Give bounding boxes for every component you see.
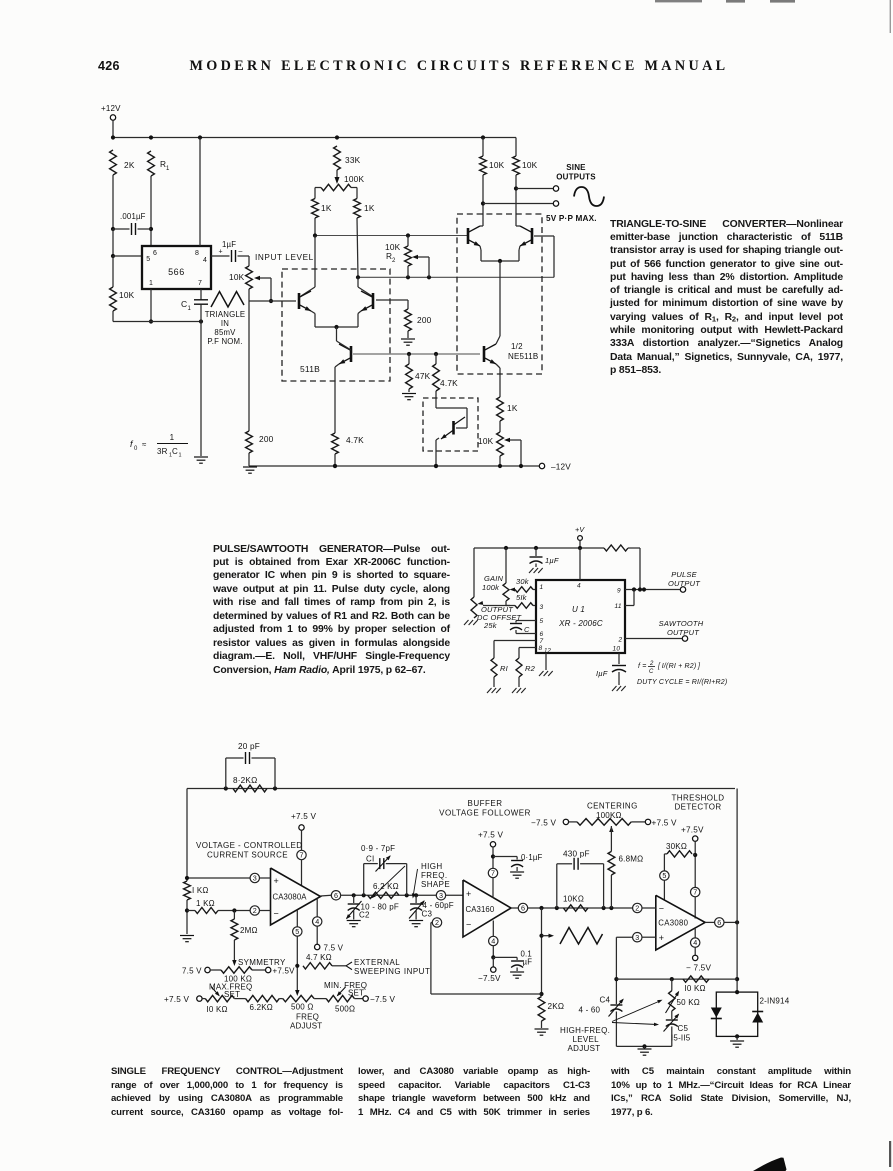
svg-text:5Ik: 5Ik (516, 593, 528, 602)
wire sine output 1 (516, 188, 553, 190)
svg-text:2: 2 (435, 918, 439, 927)
resistor 1K (497, 397, 504, 421)
svg-text:DETECTOR: DETECTOR (674, 803, 721, 812)
svg-text:6: 6 (717, 918, 721, 927)
capacitor C1 trimmer loop (363, 864, 365, 896)
svg-text:6: 6 (540, 631, 544, 638)
capacitor 430pF loop (556, 864, 558, 908)
wire (357, 218, 358, 277)
resistor 10K right output (513, 156, 520, 175)
svg-text:2K: 2K (124, 160, 135, 170)
svg-text:−7.5 V: −7.5 V (370, 995, 395, 1004)
svg-text:3: 3 (540, 604, 544, 611)
ground (512, 688, 517, 693)
svg-text:SHAPE: SHAPE (421, 880, 450, 889)
svg-text:7: 7 (491, 869, 495, 878)
svg-text:TRIANGLE: TRIANGLE (205, 310, 246, 319)
svg-text:6.2KΩ: 6.2KΩ (250, 1003, 273, 1012)
wire pin8 (519, 647, 536, 649)
svg-text:C3: C3 (422, 910, 433, 919)
leader arrow to 50K (612, 1001, 661, 1022)
svg-text:–: – (239, 248, 243, 255)
svg-text:SAWTOOTH: SAWTOOTH (659, 619, 704, 628)
svg-text:200: 200 (259, 434, 274, 444)
ground (402, 393, 416, 395)
svg-text:1: 1 (179, 453, 182, 459)
resistor R1 (148, 151, 155, 176)
wire (248, 289, 250, 301)
svg-text:SWEEPING INPUT: SWEEPING INPUT (354, 967, 430, 976)
ground (180, 935, 194, 937)
capacitor 20pF loop (225, 758, 227, 789)
svg-text:566: 566 (168, 267, 185, 277)
svg-text:P.F NOM.: P.F NOM. (207, 337, 242, 346)
svg-text:C2: C2 (359, 911, 370, 920)
svg-text:OUTPUT: OUTPUT (668, 579, 701, 588)
svg-text:5V P·P MAX.: 5V P·P MAX. (546, 214, 597, 223)
svg-text:−7.5 V: −7.5 V (531, 819, 556, 828)
svg-text:−: − (274, 909, 279, 919)
capacitor C1 (200, 289, 202, 300)
pin 7 op-amp1 (297, 850, 306, 859)
wire pin2 sawtooth output (625, 638, 682, 640)
resistor 6.2K feedback (368, 892, 399, 898)
ground (243, 466, 257, 468)
bottom controls rail (197, 996, 202, 1001)
transistor Q4 (467, 228, 470, 244)
svg-text:50 KΩ: 50 KΩ (677, 998, 700, 1007)
wire (150, 176, 152, 229)
svg-text:7: 7 (540, 638, 544, 645)
svg-text:MODERN ELECTRONIC CIRCUITS REF: MODERN ELECTRONIC CIRCUITS REFERENCE MAN… (190, 58, 729, 74)
capacitor C2 trimmer (353, 895, 355, 903)
svg-text:VOLTAGE FOLLOWER: VOLTAGE FOLLOWER (439, 809, 531, 818)
potentiometer centering 100K (563, 819, 568, 824)
potentiometer min freq 500 (326, 995, 354, 1001)
dashed box NE511B (457, 214, 542, 374)
resistor 200 input (246, 431, 253, 453)
svg-text:500 Ω: 500 Ω (291, 1003, 314, 1012)
wire node pin1 (150, 289, 152, 322)
svg-text:f =: f = (638, 663, 647, 670)
pin 6 op-amp3 (705, 921, 715, 923)
potentiometer symmetry 100K (205, 967, 210, 972)
resistor top right (604, 545, 628, 551)
svg-text:7: 7 (693, 888, 697, 897)
wire rail top right (515, 138, 517, 157)
wire node bottom (113, 321, 201, 323)
wire Q2 collector (357, 277, 359, 287)
svg-text:+7.5 V: +7.5 V (478, 831, 503, 840)
svg-text:4 - 60: 4 - 60 (579, 1006, 601, 1015)
resistor 2K (110, 150, 117, 175)
svg-text:2: 2 (392, 258, 396, 264)
svg-text:I KΩ: I KΩ (192, 886, 209, 895)
svg-text:4: 4 (315, 917, 319, 926)
svg-text:LEVEL: LEVEL (573, 1035, 600, 1044)
svg-text:C: C (649, 669, 654, 675)
svg-text:EXTERNAL: EXTERNAL (354, 958, 400, 967)
svg-text:30KΩ: 30KΩ (666, 842, 687, 851)
svg-text:ADJUST: ADJUST (290, 1022, 322, 1031)
triangle waveform icon 2 (560, 928, 603, 945)
svg-text:5: 5 (540, 618, 544, 625)
svg-text:HIGH: HIGH (421, 862, 443, 871)
svg-text:I0 KΩ: I0 KΩ (207, 1005, 228, 1014)
resistor 200 (405, 309, 412, 331)
wiper centering (609, 826, 613, 832)
capacitor .001uF (113, 228, 130, 230)
svg-text:5: 5 (146, 256, 150, 263)
capacitor 0.1uF top (493, 856, 517, 858)
wire main rail (187, 788, 735, 790)
svg-text:2MΩ: 2MΩ (240, 926, 258, 935)
svg-text:1: 1 (149, 280, 153, 287)
svg-text:7.5 V: 7.5 V (324, 944, 344, 953)
svg-text:C: C (524, 625, 530, 634)
svg-text:20 pF: 20 pF (238, 742, 260, 751)
svg-text:SET: SET (224, 990, 240, 999)
svg-text:11: 11 (615, 603, 622, 610)
svg-text:C4: C4 (600, 996, 611, 1005)
ground (529, 568, 534, 573)
capacitor C4 trimmer (610, 1004, 622, 1006)
sine wave icon (574, 187, 604, 206)
svg-text:47K: 47K (415, 371, 431, 381)
svg-text:CA3080: CA3080 (658, 919, 688, 928)
svg-text:8: 8 (539, 645, 543, 652)
svg-text:0: 0 (134, 446, 138, 452)
wire pin12 ground stub (545, 653, 547, 670)
wire (639, 548, 641, 590)
svg-text:4: 4 (693, 938, 697, 947)
svg-text:INPUT LEVEL: INPUT LEVEL (255, 253, 314, 262)
svg-text:+7.5V: +7.5V (273, 967, 296, 976)
transistor Q2 (372, 293, 375, 309)
svg-text:− 7.5V: − 7.5V (686, 964, 711, 973)
resistor 1K right (354, 199, 361, 219)
svg-text:10K: 10K (478, 436, 494, 446)
svg-text:SYMMETRY: SYMMETRY (238, 958, 286, 967)
svg-text:NE511B: NE511B (508, 352, 538, 361)
svg-text:5: 5 (662, 871, 666, 880)
ground (487, 688, 492, 693)
svg-text:+V: +V (575, 525, 585, 534)
op-amp U3 CA3080 (656, 895, 705, 950)
op-amp U1 CA3080A (271, 868, 321, 925)
resistor 6.8M (608, 851, 615, 875)
wire pin5 (516, 620, 536, 622)
wire pin5 (113, 255, 142, 257)
resistor 33K (334, 146, 341, 170)
wire base Q3 node (353, 353, 480, 355)
svg-text:7.5 V: 7.5 V (182, 967, 202, 976)
page-turn wedge bottom right (753, 1158, 787, 1171)
dashed box 511B (282, 269, 390, 381)
trimmer 50K (671, 979, 673, 991)
svg-text:CI: CI (366, 855, 374, 864)
svg-text:FREQ: FREQ (296, 1013, 319, 1022)
wire emitters (311, 311, 315, 314)
svg-text:XR - 2006C: XR - 2006C (558, 619, 603, 628)
wire pin8 top (199, 138, 201, 247)
svg-text:≈: ≈ (142, 440, 147, 449)
diode pair box 2-1N914 (716, 992, 757, 1036)
external sweeping input arrow (346, 962, 352, 966)
wire (407, 266, 409, 277)
svg-text:500Ω: 500Ω (335, 1005, 355, 1014)
transistor Q1 (298, 293, 301, 309)
capacitor 1uF output (612, 665, 626, 667)
svg-text:1K: 1K (364, 203, 375, 213)
svg-text:C: C (181, 299, 187, 309)
svg-text:.001µF: .001µF (120, 212, 146, 221)
wire top +12V rail (113, 137, 516, 139)
potentiometer 10K output (497, 432, 504, 456)
resistor 10K interstage (563, 905, 588, 911)
wire with arrow into pot (336, 170, 338, 178)
wire output node (341, 894, 437, 896)
svg-text:430 pF: 430 pF (563, 850, 590, 859)
IC U1 XR-2006C (536, 580, 625, 653)
svg-text:GAIN: GAIN (484, 574, 504, 583)
svg-text:OUTPUT: OUTPUT (667, 628, 700, 637)
resistor 2K output (539, 992, 543, 996)
potentiometer freq adjust 500 (283, 995, 314, 1001)
svg-text:U 1: U 1 (572, 605, 585, 614)
wire +V rail (474, 547, 604, 549)
svg-text:2: 2 (635, 904, 639, 913)
svg-text:2: 2 (253, 906, 257, 915)
wire Q2 to 200 (376, 299, 408, 301)
potentiometer output dc offset 25k (471, 597, 477, 618)
dashed box Q7 (423, 398, 478, 451)
wire (482, 175, 484, 219)
capacitor C5 trimmer (666, 1019, 678, 1021)
wire Q1 collector (314, 236, 316, 288)
wire right rail (736, 789, 738, 993)
svg-text:1µF: 1µF (545, 556, 559, 565)
wire (473, 548, 475, 597)
scan mark right edge top (890, 0, 891, 33)
svg-text:[ I/(RI + R2) ]: [ I/(RI + R2) ] (657, 663, 701, 670)
svg-text:2: 2 (618, 637, 623, 644)
svg-text:−7.5V: −7.5V (478, 974, 501, 983)
resistor 1K horizontal (187, 910, 195, 912)
svg-text:30k: 30k (516, 577, 530, 586)
svg-text:–12V: –12V (551, 463, 571, 472)
resistor 4.7K sweep (303, 963, 332, 969)
wire pin11 jumper (625, 605, 634, 607)
scan mark top edge (655, 0, 702, 2)
potentiometer 10K input level (248, 256, 250, 266)
wire (112, 229, 114, 256)
wire (515, 175, 517, 219)
svg-text:426: 426 (98, 59, 120, 73)
resistor 10K (112, 256, 114, 287)
wire bottom node (616, 1045, 671, 1047)
svg-text:511B: 511B (300, 364, 320, 374)
transistor Q5 (531, 228, 534, 244)
wire (112, 175, 114, 229)
svg-text:+7.5 V: +7.5 V (652, 819, 677, 828)
svg-text:6: 6 (334, 891, 338, 900)
svg-text:CURRENT SOURCE: CURRENT SOURCE (207, 851, 288, 860)
svg-text:0·1µF: 0·1µF (521, 853, 543, 862)
capacitor 1uF bypass (535, 548, 537, 556)
op-amp U2 CA3160 (463, 880, 511, 937)
resistor 4.7K emitter (332, 433, 339, 454)
svg-text:HIGH-FREQ.: HIGH-FREQ. (560, 1026, 610, 1035)
svg-text:1: 1 (166, 166, 170, 172)
svg-text:4: 4 (491, 937, 495, 946)
diode D1 (711, 1008, 722, 1018)
svg-text:4.7 KΩ: 4.7 KΩ (306, 953, 332, 962)
svg-text:1: 1 (540, 584, 544, 591)
wire (314, 188, 316, 199)
resistor 8.2K (233, 785, 267, 792)
svg-text:IµF: IµF (596, 669, 608, 678)
svg-text:SET: SET (348, 989, 364, 998)
svg-text:1K: 1K (321, 203, 332, 213)
svg-text:10KΩ: 10KΩ (563, 895, 584, 904)
svg-text:1K: 1K (507, 403, 518, 413)
ground (535, 1028, 549, 1030)
feedback wire op-amp2 (436, 923, 438, 928)
IC 566 function generator U1 (142, 246, 211, 289)
svg-text:1/2: 1/2 (511, 342, 523, 351)
svg-text:PULSE: PULSE (671, 570, 697, 579)
svg-text:−: − (659, 904, 664, 914)
svg-text:DUTY CYCLE = RI/(RI+R2): DUTY CYCLE = RI/(RI+R2) (637, 679, 727, 686)
ground (638, 1048, 652, 1050)
wire (499, 261, 501, 336)
leader arrow to C3 (413, 869, 418, 897)
wire (248, 301, 250, 431)
svg-text:THRESHOLD: THRESHOLD (672, 794, 725, 803)
pin 7 op-amp3 (691, 887, 700, 896)
wire -12V rail (249, 465, 539, 467)
svg-text:+: + (219, 249, 223, 256)
pin 3 op-amp2 (436, 891, 445, 900)
wire gain wiper (505, 601, 507, 606)
pin 2 op-amp1 (250, 906, 259, 915)
svg-text:4.7K: 4.7K (346, 435, 364, 445)
wire waveform branch (541, 908, 543, 994)
capacitor 0.1uF bottom (493, 956, 517, 958)
pin 4 op-amp1 (316, 899, 318, 917)
svg-text:6: 6 (521, 904, 525, 913)
svg-text:10K: 10K (119, 290, 135, 300)
pin 7 op-amp2 (488, 868, 497, 877)
svg-text:1: 1 (188, 306, 192, 312)
svg-text:SINE: SINE (566, 163, 586, 172)
resistor R2 (516, 658, 522, 677)
resistor 2M (233, 911, 235, 920)
resistor 1K vertical (184, 881, 191, 900)
svg-text:4.7K: 4.7K (440, 378, 458, 388)
wire output node 2 (528, 907, 633, 909)
svg-text:1: 1 (170, 433, 175, 442)
svg-text:CENTERING: CENTERING (587, 802, 638, 811)
triangle waveform icon (211, 292, 244, 308)
svg-text:10: 10 (613, 646, 621, 653)
wire pin9 pulse output (625, 589, 680, 591)
pin 2 op-amp3 (633, 903, 642, 912)
resistor 6.2K bottom (234, 998, 245, 1000)
wire Q5 base (534, 235, 554, 237)
svg-text:8·2KΩ: 8·2KΩ (233, 776, 257, 785)
svg-text:+7.5 V: +7.5 V (164, 995, 189, 1004)
svg-text:+: + (466, 889, 471, 899)
resistor 4.7K second (435, 354, 437, 364)
pin 5 op-amp3 (660, 871, 669, 880)
svg-text:+7.5 V: +7.5 V (291, 812, 316, 821)
svg-text:−: − (466, 920, 471, 930)
svg-text:2KΩ: 2KΩ (548, 1002, 565, 1011)
svg-text:3: 3 (439, 891, 443, 900)
svg-text:85mV: 85mV (214, 328, 236, 337)
svg-text:3: 3 (253, 874, 257, 883)
svg-text:+: + (659, 933, 664, 943)
wire (736, 1036, 738, 1040)
pin 6 op-amp1 (321, 894, 332, 897)
potentiometer max freq 10K (205, 995, 234, 1001)
wire node A (314, 218, 316, 236)
svg-text:RI: RI (500, 664, 508, 673)
svg-text:CA3160: CA3160 (466, 905, 495, 914)
transistor Q6 (483, 346, 486, 362)
resistor R1 (491, 658, 497, 677)
pin 4 op-amp3 (694, 929, 696, 938)
svg-text:7: 7 (198, 280, 202, 287)
wire node B (358, 276, 554, 278)
svg-text:FREQ.: FREQ. (421, 871, 447, 880)
terminal -12V (539, 463, 544, 468)
svg-text:7: 7 (300, 851, 304, 860)
svg-text:5: 5 (295, 927, 299, 936)
wire left rail (186, 789, 188, 882)
capacitor C3 trimmer (415, 895, 417, 903)
svg-text:4: 4 (203, 257, 207, 264)
svg-text:6: 6 (153, 250, 157, 257)
svg-text:BUFFER: BUFFER (468, 799, 503, 808)
ground (401, 338, 415, 340)
capacitor C timing (510, 623, 522, 625)
pin 4 op-amp2 (492, 921, 494, 937)
wire (248, 453, 250, 466)
diode D2 (752, 1013, 763, 1023)
svg-text:I5-II5: I5-II5 (671, 1034, 691, 1043)
wire (112, 311, 114, 322)
resistor 30K (693, 854, 695, 855)
svg-text:VOLTAGE - CONTROLLED: VOLTAGE - CONTROLLED (196, 841, 302, 850)
resistor 10K threshold (683, 976, 709, 982)
leader arrow to C5 (612, 1023, 658, 1025)
wire pin10 (618, 653, 620, 664)
pin 5 op-amp1 (296, 910, 298, 927)
svg-text:6.2 KΩ: 6.2 KΩ (373, 882, 399, 891)
svg-text:3: 3 (635, 933, 639, 942)
svg-text:33K: 33K (345, 155, 361, 165)
resistor 1K left (312, 199, 319, 219)
wire pin7 (494, 640, 536, 642)
svg-text:CA3080A: CA3080A (273, 893, 308, 902)
ground (464, 620, 469, 625)
ground (730, 1040, 744, 1042)
wire pin4 (579, 548, 581, 580)
ground (194, 456, 208, 458)
